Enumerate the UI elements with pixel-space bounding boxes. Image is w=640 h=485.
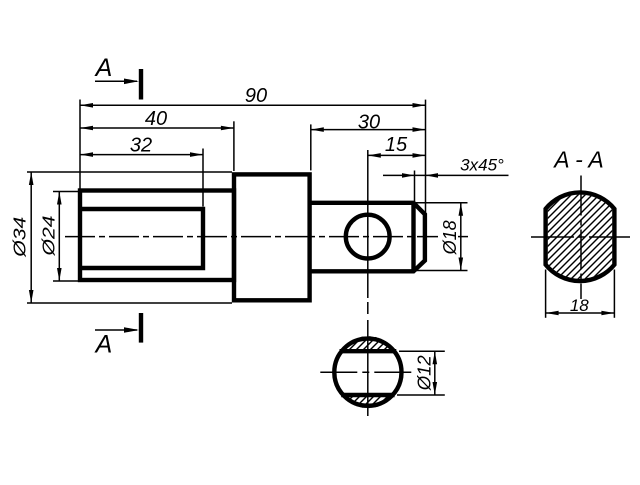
svg-text:A: A xyxy=(94,54,113,82)
extension line left face xyxy=(79,100,81,190)
dimension 3x45 chamfer xyxy=(383,174,509,176)
dimension O24 xyxy=(53,191,80,193)
svg-text:30: 30 xyxy=(358,112,380,134)
dimension 18 xyxy=(545,270,547,318)
dimension O12 xyxy=(399,350,445,352)
main view: hole vertical centerline xyxy=(367,150,369,298)
section A-A outline xyxy=(546,192,615,281)
extension line flats end x=203 xyxy=(202,149,204,207)
svg-text:A - A: A - A xyxy=(552,147,603,173)
dimension O34 xyxy=(27,171,232,173)
dimension 90 xyxy=(80,104,426,106)
bottom view: horizontal centerline xyxy=(320,371,412,373)
svg-text:Ø18: Ø18 xyxy=(440,220,460,255)
dimension 40 xyxy=(80,127,234,129)
extension line flange left xyxy=(233,121,235,171)
main view: left cylinder outline (O24 with flats) xyxy=(80,191,234,281)
svg-text:15: 15 xyxy=(385,134,408,156)
dimension O18 xyxy=(415,202,468,204)
extension line chamfer start xyxy=(414,171,416,203)
dimension 15 xyxy=(368,154,426,156)
svg-text:90: 90 xyxy=(245,85,267,107)
main view: cross hole circle O12 xyxy=(346,215,390,259)
main view: flat edges lines xyxy=(80,209,203,268)
section A-A horizontal centerline xyxy=(531,236,630,238)
section arrow A bottom xyxy=(95,329,137,331)
bottom view: shaft end circle O18 xyxy=(334,339,401,406)
svg-text:Ø24: Ø24 xyxy=(39,215,59,257)
dimension 32 xyxy=(80,154,203,156)
svg-text:Ø12: Ø12 xyxy=(415,355,435,391)
bottom view: hole silhouette bottom chord xyxy=(341,393,394,397)
main view: flange outline (O34) xyxy=(234,174,310,300)
svg-text:A: A xyxy=(94,331,113,359)
extension line shaft end face xyxy=(425,100,427,214)
svg-text:Ø34: Ø34 xyxy=(10,216,30,258)
svg-text:40: 40 xyxy=(145,108,167,130)
svg-text:18: 18 xyxy=(570,296,589,315)
extension line flange right xyxy=(310,124,312,170)
main view: chamfer edge line xyxy=(411,203,415,271)
bottom view: hole silhouette top chord xyxy=(340,349,397,353)
dimension 30 xyxy=(311,129,426,131)
svg-text:32: 32 xyxy=(130,135,152,157)
main view: right shaft O18 with chamfer 3x45 xyxy=(310,203,425,271)
section arrow A top xyxy=(95,80,137,82)
svg-text:3x45°: 3x45° xyxy=(460,156,504,175)
main view: horizontal centerline xyxy=(65,236,438,238)
section A-A vertical centerline xyxy=(580,176,582,300)
